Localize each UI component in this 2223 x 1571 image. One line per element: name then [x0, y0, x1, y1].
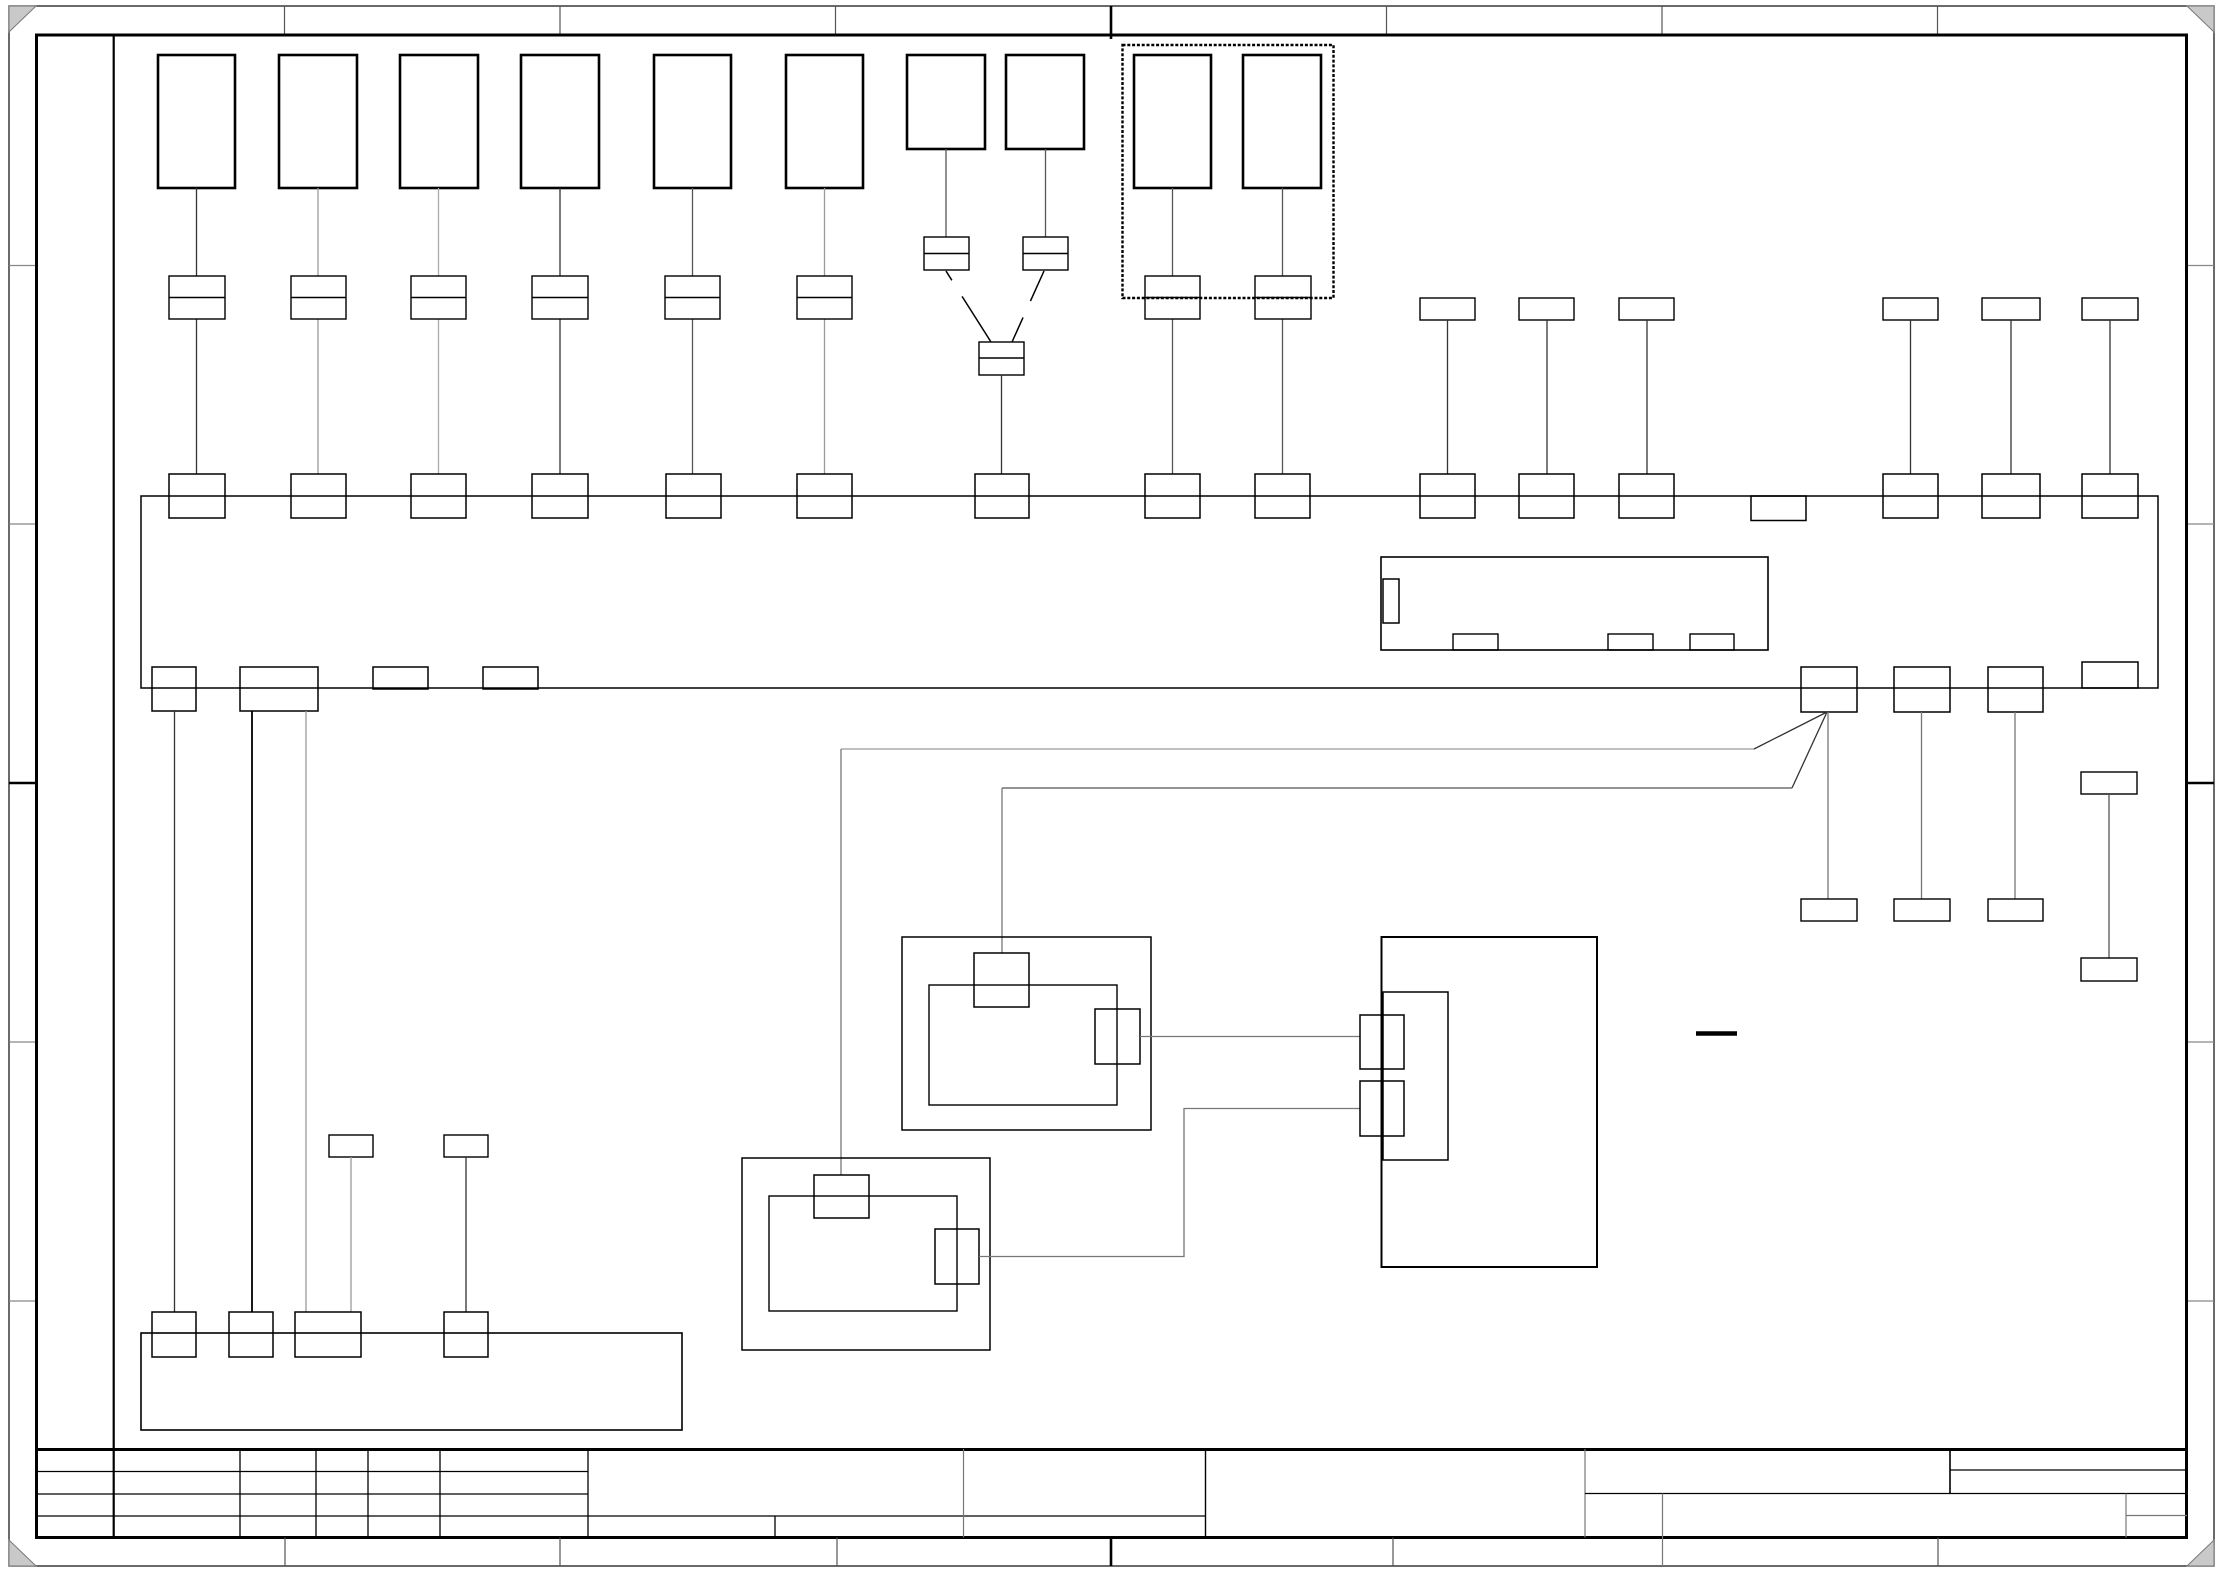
fuse F8 [1023, 237, 1068, 270]
terminal E17 upper [2081, 772, 2137, 794]
wire K5-F5-X5 [692, 188, 694, 474]
end terminal E15 [1894, 899, 1950, 921]
terminal E17 lower [2081, 958, 2137, 981]
dashed group enclosure [1123, 45, 1334, 298]
wire B11-X11 [1447, 320, 1449, 474]
wire Y14 branch diagonal upper [1754, 712, 1827, 749]
component K1 [158, 55, 235, 188]
wire K4-F4-X4 [559, 188, 561, 474]
connector X14 [1883, 474, 1938, 518]
connector Z1 [152, 1312, 196, 1357]
component K9 [1134, 55, 1211, 188]
connector X9 [1145, 474, 1200, 518]
central electrical box [141, 496, 2158, 688]
terminal B16 [2082, 298, 2138, 320]
terminal box T1 [329, 1135, 373, 1157]
terminal B15 [1982, 298, 2040, 320]
wire E17 [2108, 794, 2110, 958]
wire K9-F9-X9 [1172, 188, 1174, 474]
actuator unit R1 [1382, 937, 1598, 1267]
half connector Y4 [483, 667, 538, 689]
connector Y15 [1894, 667, 1950, 712]
connector X3 [411, 474, 466, 518]
wire K6-F6-X6 [824, 188, 826, 474]
component K5 [654, 55, 731, 188]
connector M1 top [974, 953, 1029, 1007]
title block right upper vertical [1949, 1449, 1951, 1494]
fuse F3 [411, 276, 466, 319]
connector Y1 [152, 667, 196, 711]
component K6 [786, 55, 863, 188]
fuse F6 [797, 276, 852, 319]
junction fuse F11 [979, 342, 1024, 375]
connector X13 [1619, 474, 1674, 518]
terminal B13 [1619, 298, 1674, 320]
bottom center mark (thick) [1110, 1538, 1113, 1567]
corner fold triangle bottom-left [9, 1540, 36, 1566]
wire Y16 drop [2014, 712, 2016, 899]
fuse F1 [169, 276, 225, 319]
top margin tick marks [285, 6, 1938, 34]
connector X11 [1420, 474, 1475, 518]
terminal B12 [1519, 298, 1574, 320]
connector X4 [532, 474, 588, 518]
connector M2 right [935, 1229, 979, 1284]
wire Y14 branch diagonal lower [1792, 712, 1827, 788]
wire M2-C2 [979, 1109, 1360, 1257]
polarity dash mark [1696, 1031, 1737, 1036]
frame column divider line [113, 35, 115, 1538]
terminal box T2 [444, 1135, 488, 1157]
connector Y2 [240, 667, 318, 711]
connector M1 right [1095, 1009, 1140, 1064]
top center mark (thick) [1110, 6, 1113, 39]
title block column lines (left table) [240, 1449, 588, 1538]
control unit M1 inner body [929, 985, 1117, 1105]
wire M2 riser [840, 749, 842, 1175]
wire Y2-Z3 [305, 711, 307, 1312]
wire Y15 drop [1921, 712, 1923, 899]
connector M2 top [814, 1175, 869, 1218]
wire Y14 branch horizontal upper [841, 748, 1754, 750]
title block bottom-row divider [774, 1516, 776, 1538]
wire K10-F10-X10 [1282, 188, 1284, 474]
component K8 [1006, 55, 1084, 149]
title block divider below row2 [1662, 1494, 1664, 1567]
control unit M2 inner body [769, 1196, 957, 1311]
connector X1 [169, 474, 225, 518]
connector X10 [1255, 474, 1310, 518]
wire B12-X12 [1546, 320, 1548, 474]
component K7 [907, 55, 985, 149]
wire B14-X14 [1910, 320, 1912, 474]
right center mark (thick) [2187, 782, 2214, 785]
connector X7 [975, 474, 1029, 518]
wire B13-X13 [1646, 320, 1648, 474]
wire K8-F8 [1045, 149, 1047, 237]
fuse F9 [1145, 276, 1200, 319]
connector Z4 [444, 1312, 488, 1357]
wire K7-F7 [945, 149, 947, 237]
connector Z2 [229, 1312, 273, 1357]
wire K1-F1-X1 [196, 188, 198, 474]
relay module left pin [1383, 579, 1399, 623]
component K3 [400, 55, 478, 188]
connector X2 [291, 474, 346, 518]
dashed wire F8 to junction [1012, 271, 1044, 342]
connector X15 [1982, 474, 2040, 518]
component K2 [279, 55, 357, 188]
component K10 [1243, 55, 1321, 188]
relay module notch 2 [1608, 634, 1653, 650]
left margin tick marks [9, 266, 36, 1302]
wire B16-X16 [2109, 320, 2111, 474]
fuse F7 [924, 237, 969, 270]
fuse F4 [532, 276, 588, 319]
end terminal E16 [1988, 899, 2043, 921]
wire T1-Z3 [350, 1157, 352, 1312]
wire Y14 branch horizontal lower [1002, 787, 1792, 789]
relay module notch 3 [1690, 634, 1734, 650]
half connector Y3 [373, 667, 428, 689]
title block vertical at drawing-name cell [1205, 1449, 1207, 1538]
corner fold triangle top-right [2187, 6, 2214, 32]
title block right section vertical [1584, 1449, 1586, 1538]
actuator R1 inner body [1383, 992, 1448, 1160]
wire Y1-Z1 [174, 711, 176, 1312]
control unit M1 [902, 937, 1151, 1130]
left center mark (thick) [9, 782, 36, 785]
connector X5 [666, 474, 721, 518]
title block small corner cells [2126, 1494, 2187, 1538]
wire Y2-Z2 [251, 711, 253, 1312]
connector Y16 [1988, 667, 2043, 712]
corner fold triangle bottom-right [2187, 1540, 2214, 1566]
half connector Y17 [2082, 662, 2138, 688]
connector Y14 [1801, 667, 1857, 712]
relay module in central box [1381, 557, 1768, 650]
wire K3-F3-X3 [438, 188, 440, 474]
title block top thick line [36, 1448, 2187, 1451]
wire B15-X15 [2010, 320, 2012, 474]
end terminal E14 [1801, 899, 1857, 921]
wire M1 riser [1001, 788, 1003, 953]
terminal B14 [1883, 298, 1938, 320]
ground distribution box [141, 1333, 682, 1430]
terminal B11 [1420, 298, 1475, 320]
control unit M2 [742, 1158, 990, 1350]
wire M1-C1 [1140, 1036, 1360, 1038]
wire T2-Z4 [465, 1157, 467, 1312]
relay module notch 1 [1453, 634, 1498, 650]
connector X12 [1519, 474, 1574, 518]
connector Z3 [295, 1312, 361, 1357]
wire K2-F2-X2 [317, 188, 319, 474]
title block right row line 2 [1585, 1493, 2187, 1495]
title block right row line 1 [1950, 1469, 2187, 1471]
bottom band fold dividers [285, 1538, 1938, 1567]
connector C1 [1360, 1015, 1404, 1069]
fuse F10 [1255, 276, 1311, 319]
connector X16 [2082, 474, 2138, 518]
right margin tick marks [2187, 266, 2214, 1302]
title block row lines [36, 1472, 1206, 1517]
fuse F5 [665, 276, 720, 319]
fuse F2 [291, 276, 346, 319]
wire Y14 drop [1827, 712, 1829, 899]
title block mid vertical (gray) [963, 1449, 965, 1538]
dashed wire F7 to junction [946, 271, 991, 342]
half connector Xh [1751, 496, 1806, 521]
wire F11-X7 [1001, 375, 1003, 474]
component K4 [521, 55, 599, 188]
connector C2 [1360, 1081, 1404, 1136]
connector X6 [797, 474, 852, 518]
corner fold triangle top-left [9, 6, 36, 32]
